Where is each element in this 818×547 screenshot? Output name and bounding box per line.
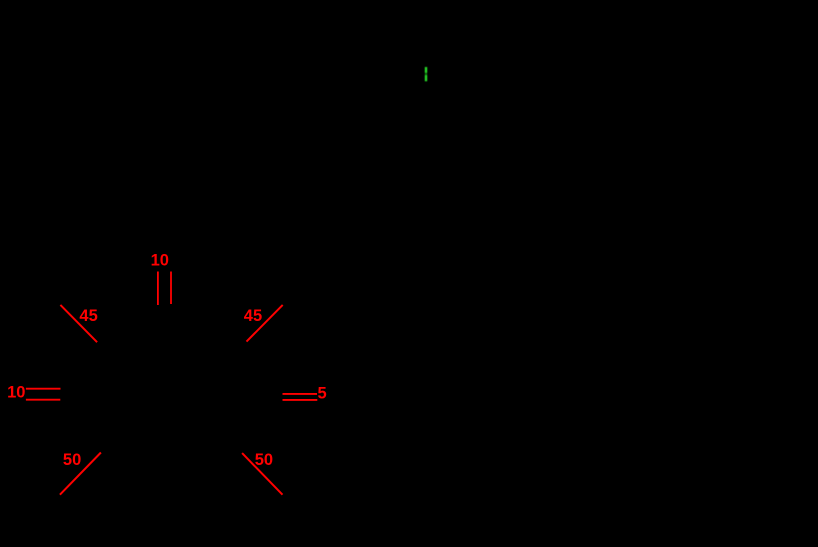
- atom I (green iodine label): [425, 67, 427, 81]
- bond upper-left diagonal: [60, 305, 97, 342]
- svg-text:5: 5: [318, 384, 327, 402]
- svg-text:10: 10: [151, 252, 169, 270]
- svg-text:50: 50: [63, 451, 81, 469]
- svg-text:45: 45: [79, 307, 97, 325]
- bond upper-right diagonal: [247, 305, 283, 342]
- bond lower-right diagonal: [242, 453, 282, 495]
- bond lower-left diagonal: [60, 453, 101, 495]
- double bond right: [283, 394, 318, 400]
- svg-text:45: 45: [244, 307, 262, 325]
- double bond top (C=C up): [158, 272, 171, 306]
- svg-text:50: 50: [255, 451, 273, 469]
- double bond left: [26, 389, 61, 400]
- svg-text:10: 10: [7, 384, 25, 402]
